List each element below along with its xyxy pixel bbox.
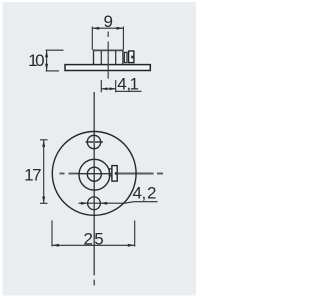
hub top edge (93, 49, 123, 51)
horizontal centerline through hub (78, 173, 113, 175)
dimension 4,2 leader bend (125, 202, 134, 204)
dimension 9 right extension (122, 27, 124, 50)
dimension 17 line (43, 140, 45, 203)
set screw neck bottom line (front view) (109, 175, 112, 177)
dimension 4,2 line through hole (79, 202, 126, 204)
svg-text:2: 2 (147, 183, 156, 202)
horizontal centerline dash left (60, 173, 65, 175)
hub circle (79, 159, 110, 190)
set screw head (top view) (129, 51, 134, 63)
svg-text:2: 2 (83, 230, 92, 249)
dimension 4,1 left extension (100, 80, 102, 92)
hub left side (93, 50, 95, 65)
set screw slot mark (top view) (131, 56, 134, 59)
dimension 10 line (46, 50, 48, 70)
top hole (87, 135, 100, 148)
top view centerline (107, 32, 109, 38)
svg-text:5: 5 (94, 230, 103, 249)
dimension 9 line (92, 27, 123, 29)
drawing area (3, 2, 197, 296)
svg-text:0: 0 (35, 51, 44, 70)
svg-text:1: 1 (129, 74, 138, 93)
dimension 4,1 right arrow (110, 87, 116, 90)
bore hidden line left (100, 51, 102, 71)
horizontal centerline left segment (69, 173, 78, 175)
svg-text:4: 4 (117, 74, 126, 93)
dimension 17 top arrow (42, 140, 45, 147)
set screw head (front view) (112, 166, 117, 182)
dimension 4,1 right extension (115, 80, 117, 92)
dimension 9 left extension (91, 27, 93, 50)
svg-text:9: 9 (103, 12, 112, 31)
set screw washer (top view) (124, 52, 127, 62)
dimension 9 right arrow (117, 27, 124, 30)
dimension 9 left arrow (92, 27, 99, 30)
dimension 25 line (52, 244, 135, 246)
bore circle (87, 167, 101, 181)
dimension 25 right arrow (128, 244, 135, 247)
dimension 10 bottom extension (46, 70, 59, 72)
outer circle Ø25 (52, 132, 136, 216)
dimension 25 left arrow (52, 244, 59, 247)
dimension 17 bottom arrow (42, 197, 45, 204)
dimension 4,1 leader shelf (116, 90, 142, 92)
dimension 4,2 left arrow (81, 202, 88, 205)
dimension 4,2 right arrow (100, 202, 107, 205)
set screw slot mark (front view) (115, 172, 117, 175)
top hole tick (86, 141, 104, 143)
page background (0, 0, 200, 300)
svg-text:,: , (142, 183, 147, 202)
bottom hole (88, 197, 101, 210)
horizontal centerline dash right (157, 173, 163, 175)
set screw neck vertical (front view) (108, 168, 110, 176)
dimension 10 top extension (46, 49, 64, 51)
dimension 10 top arrow (45, 50, 48, 57)
horizontal centerline right segment (118, 173, 154, 175)
vertical centerline (93, 92, 95, 275)
dimension 25 right extension (134, 220, 136, 246)
dimension 17 bottom tick (40, 202, 48, 204)
svg-text:4: 4 (132, 183, 141, 202)
dimension 4,1 line (101, 88, 115, 90)
dimension 4,2 leader shelf (134, 201, 158, 203)
hub right side (122, 50, 124, 65)
dimension 25 left extension (51, 220, 53, 246)
dimension 4,1 left arrow (101, 87, 107, 90)
flange plate (65, 65, 150, 71)
dimension 17 top tick (40, 139, 48, 141)
dimension 10 bottom arrow (45, 64, 48, 71)
svg-text:7: 7 (32, 166, 41, 185)
set screw neck top line (front view) (109, 168, 112, 170)
bore hidden line right (115, 51, 117, 71)
